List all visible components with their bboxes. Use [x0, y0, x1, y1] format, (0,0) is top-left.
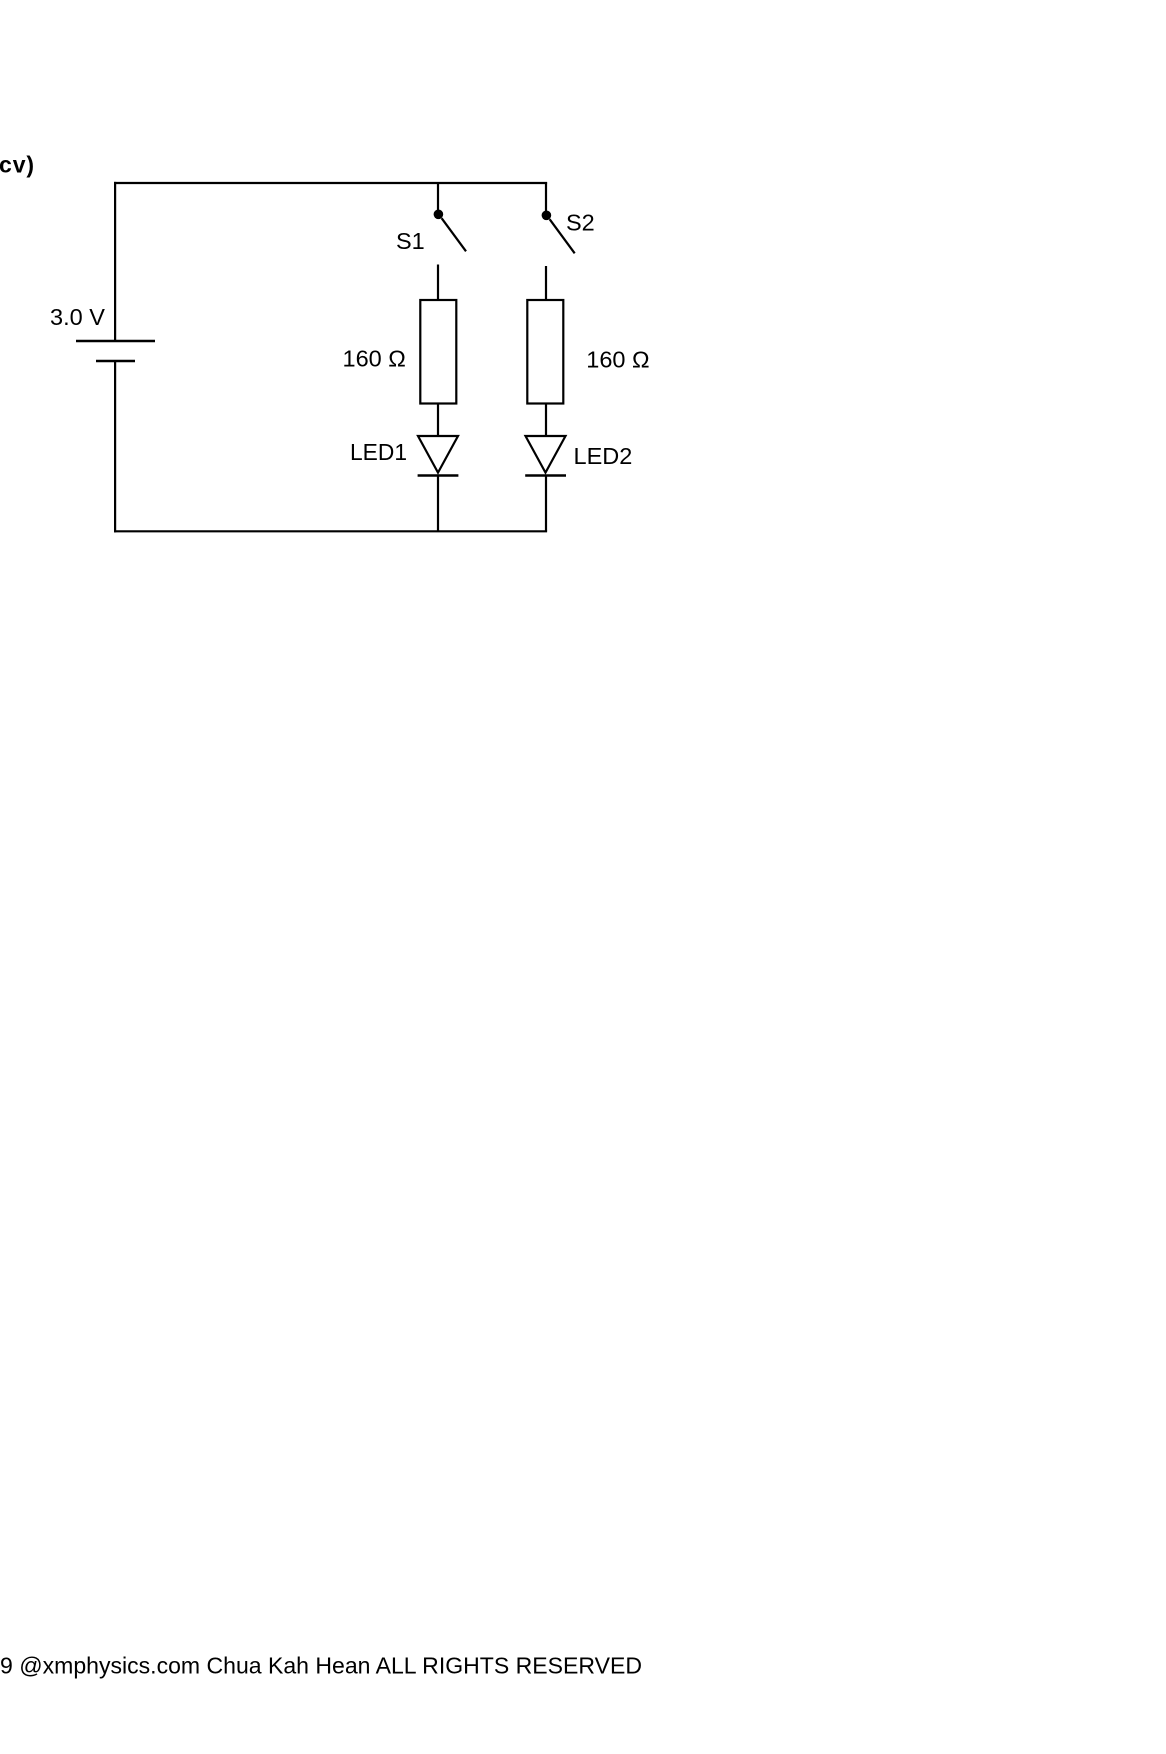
svg-text:3.0 V: 3.0 V: [50, 304, 105, 330]
wire left vertical lower: [114, 361, 116, 532]
value label 3.0 V: [50, 304, 105, 330]
svg-text:LED2: LED2: [574, 443, 633, 469]
wire branch 2 resistor to LED: [545, 404, 547, 438]
resistor R2 160 ohm: [527, 300, 563, 404]
LED1 diode: [418, 436, 459, 476]
svg-text:160 Ω: 160 Ω: [343, 346, 406, 372]
battery B1 3.0 V: [76, 341, 155, 361]
value label 160 ohm right: [586, 347, 649, 373]
svg-text:S1: S1: [396, 228, 425, 254]
svg-text:cv): cv): [0, 152, 35, 178]
wire branch 1 above resistor: [437, 265, 439, 302]
svg-text:LED1: LED1: [350, 439, 407, 465]
wire branch 1 resistor to LED: [437, 404, 439, 438]
wire left vertical upper: [114, 182, 116, 341]
switch S2: [542, 211, 575, 254]
wire branch 2 below LED: [545, 475, 547, 532]
svg-text:S2: S2: [566, 210, 595, 236]
label LED2: [574, 443, 633, 469]
LED2 diode: [525, 436, 566, 476]
svg-text:160 Ω: 160 Ω: [586, 347, 649, 373]
resistor R1 160 ohm: [420, 300, 456, 404]
wire branch 1 stub from top: [437, 182, 439, 211]
wire top horizontal: [114, 182, 547, 184]
label S2: [566, 210, 595, 236]
label S1: [396, 228, 425, 254]
footer copyright text: [0, 1652, 642, 1678]
svg-text:9 @xmphysics.com Chua Kah Hean: 9 @xmphysics.com Chua Kah Hean ALL RIGHT…: [0, 1652, 642, 1678]
switch S1: [434, 210, 466, 252]
wire branch 1 below LED: [437, 475, 439, 532]
label LED1: [350, 439, 407, 465]
wire branch 2 stub from top: [545, 182, 547, 212]
value label 160 ohm left: [343, 346, 406, 372]
part label cv): [0, 152, 35, 178]
wire branch 2 above resistor: [545, 266, 547, 301]
wire bottom horizontal: [114, 530, 547, 532]
